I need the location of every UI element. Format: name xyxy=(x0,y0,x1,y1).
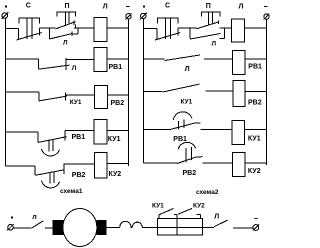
contact L motor right xyxy=(214,220,228,227)
label RV1 contact row4 schema2 xyxy=(173,136,187,143)
svg-text:РВ2: РВ2 xyxy=(72,172,86,179)
label coil RV1 schema2 xyxy=(248,63,262,70)
coil L schema1 xyxy=(94,18,107,42)
terminal right motor circuit xyxy=(253,224,259,230)
svg-text:КУ2: КУ2 xyxy=(109,171,122,178)
label coil L schema2 xyxy=(239,4,244,11)
wire row3 s1 b xyxy=(65,94,94,96)
wire row2 s2 c xyxy=(245,58,267,60)
svg-text:С: С xyxy=(165,3,170,10)
node plus mark (schema2 left supply) xyxy=(143,6,145,8)
motor brush right xyxy=(97,221,106,235)
wire motor d (through resistor) xyxy=(142,227,214,229)
svg-text:Л: Л xyxy=(72,65,77,72)
motor armature M xyxy=(63,209,97,247)
node minus mark (schema1 right supply) xyxy=(126,6,129,8)
coil KU2 schema1 xyxy=(95,152,108,178)
label coil KU1 schema1 xyxy=(108,136,121,143)
pushbutton P (start) schema1 xyxy=(56,12,76,29)
wire row5 s2 b xyxy=(203,162,233,164)
label coil L schema1 xyxy=(103,4,108,11)
wire row2 s1 c xyxy=(107,58,129,60)
label L contact row2 schema2 xyxy=(185,66,190,73)
wire row1 s1 c xyxy=(74,27,94,29)
wire: right bus schema1 xyxy=(128,19,130,166)
svg-text:РВ1: РВ1 xyxy=(248,63,262,70)
contact KU1 (NO) schema2 row3 xyxy=(163,84,200,92)
svg-text:Л: Л xyxy=(185,66,190,73)
wire: right bus schema2 xyxy=(266,19,268,165)
svg-text:РВ2: РВ2 xyxy=(248,100,262,107)
terminal left motor circuit xyxy=(7,224,13,230)
coil KU1 schema1 xyxy=(94,120,107,145)
svg-text:схема2: схема2 xyxy=(196,189,219,196)
inductor (field winding) xyxy=(120,221,143,227)
wire row3 s2 b xyxy=(205,90,233,92)
coil L schema2 xyxy=(232,19,245,42)
wire row1 s1 a xyxy=(6,28,19,30)
contact KU1 (NO) schema1 row3 xyxy=(39,92,67,101)
label coil KU1 schema2 xyxy=(248,135,261,142)
contact L self-hold schema2 xyxy=(190,28,224,39)
time-delay contact RV2 schema2 row5 xyxy=(177,142,202,163)
label KU2 bypass xyxy=(193,202,205,209)
wire row1 s2 a xyxy=(144,28,158,30)
contact L (NO) schema1 row2 xyxy=(39,58,70,70)
label C schema1 xyxy=(26,3,31,10)
wire motor c xyxy=(106,227,120,229)
contact L (NO) schema2 row2 xyxy=(165,55,200,61)
wire row4 s1 c xyxy=(107,130,129,132)
coil RV2 schema1 xyxy=(95,86,108,109)
coil KU1 schema2 xyxy=(232,121,245,145)
label coil RV1 schema1 xyxy=(109,64,123,71)
terminal left schema1 xyxy=(2,12,9,18)
svg-text:КУ1: КУ1 xyxy=(152,202,164,209)
label KU1 contact row3 schema1 xyxy=(70,99,82,106)
wire row4 s2 a xyxy=(144,129,169,131)
wire row1 s2 c xyxy=(220,27,232,29)
label L motor left xyxy=(32,214,36,221)
pushbutton C (stop) schema1 xyxy=(17,18,42,40)
time-delay contact RV1 schema2 row4 xyxy=(169,112,201,130)
svg-text:Л: Л xyxy=(212,40,217,47)
wire row4 s1 b xyxy=(65,130,93,132)
terminal right schema2 xyxy=(264,14,270,20)
wire row2 s1 a xyxy=(6,58,39,60)
bypass contact KU2 xyxy=(178,208,201,218)
wire row3 s1 c xyxy=(108,94,129,96)
wire motor e xyxy=(233,227,253,229)
label L self-hold schema1 xyxy=(63,40,68,47)
label RV2 contact row5 schema1 xyxy=(72,172,86,179)
time-delay contact RV2 schema1 row5 xyxy=(35,164,64,188)
wire row1 s1 d xyxy=(107,27,129,29)
label KU1 contact row3 schema2 xyxy=(181,99,193,106)
wire: left bus schema1 xyxy=(5,18,7,166)
svg-text:РВ1: РВ1 xyxy=(109,64,123,71)
svg-text:Л: Л xyxy=(239,4,244,11)
svg-text:КУ2: КУ2 xyxy=(193,202,205,209)
svg-text:П: П xyxy=(65,3,70,10)
coil RV1 schema2 xyxy=(233,51,246,75)
node minus mark (motor circuit right) xyxy=(255,217,258,219)
starting resistor R1-R2 box xyxy=(158,218,203,235)
label KU1 bypass xyxy=(152,202,164,209)
svg-text:РВ2: РВ2 xyxy=(183,170,197,177)
svg-text:РВ2: РВ2 xyxy=(111,100,125,107)
wire motor b xyxy=(45,227,53,229)
node plus mark (schema1 left supply) xyxy=(5,6,7,8)
svg-text:КУ1: КУ1 xyxy=(181,99,193,106)
svg-text:КУ1: КУ1 xyxy=(70,99,82,106)
contact L motor left xyxy=(32,221,44,228)
svg-text:Л: Л xyxy=(103,4,108,11)
label C schema2 xyxy=(165,3,170,10)
wire row1 s2 b xyxy=(178,27,197,29)
label P schema2 xyxy=(206,3,211,10)
label RV2 contact row5 schema2 xyxy=(183,170,197,177)
coil RV2 schema2 xyxy=(233,81,245,107)
terminal right schema1 xyxy=(126,13,132,19)
svg-text:П: П xyxy=(206,3,211,10)
label coil RV2 schema1 xyxy=(111,100,125,107)
wire row3 s2 c xyxy=(245,91,267,93)
wire motor a xyxy=(14,227,32,229)
caption schema1 xyxy=(60,188,83,195)
label coil KU2 schema1 xyxy=(109,171,122,178)
svg-text:РВ1: РВ1 xyxy=(173,136,187,143)
label RV1 contact row4 schema1 xyxy=(72,134,86,141)
svg-text:КУ2: КУ2 xyxy=(248,168,261,175)
wire row3 s2 a xyxy=(144,91,163,93)
label P schema1 xyxy=(65,3,70,10)
label coil KU2 schema2 xyxy=(248,168,261,175)
wire row2 s1 b xyxy=(66,59,94,61)
svg-text:Л: Л xyxy=(214,214,219,221)
wire row1 s2 d xyxy=(245,27,267,29)
wire row4 s1 a xyxy=(6,131,39,133)
node minus mark (schema2 right supply) xyxy=(264,6,267,8)
wire row4 s2 b xyxy=(201,129,233,131)
coil RV1 schema1 xyxy=(94,48,107,72)
wire row4 s2 c xyxy=(245,129,267,131)
coil KU2 schema2 xyxy=(232,153,245,177)
terminal left schema2 xyxy=(140,13,147,20)
svg-text:КУ1: КУ1 xyxy=(108,136,121,143)
svg-text:Л: Л xyxy=(63,40,68,47)
contact L self-hold schema1 xyxy=(49,29,78,40)
label L contact row2 schema1 xyxy=(72,65,77,72)
svg-text:РВ1: РВ1 xyxy=(72,134,86,141)
wire row5 s2 c xyxy=(245,162,267,164)
time-delay contact RV1 schema1 row4 xyxy=(38,131,67,156)
pushbutton P (start) schema2 xyxy=(197,12,221,29)
label L motor right xyxy=(214,214,219,221)
label coil RV2 schema2 xyxy=(248,100,262,107)
wire row5 s2 a xyxy=(144,162,178,164)
wire row2 s2 a xyxy=(144,58,165,60)
pushbutton C (stop) schema2 xyxy=(155,18,180,40)
label L self-hold schema2 xyxy=(212,40,217,47)
wire row5 s1 b xyxy=(64,163,94,165)
wire row5 s1 a xyxy=(6,165,36,167)
node plus mark (motor circuit left) xyxy=(11,217,13,219)
wire row5 s1 c xyxy=(107,163,129,165)
wire row2 s2 b xyxy=(204,58,233,60)
motor brush left xyxy=(53,221,63,235)
svg-text:КУ1: КУ1 xyxy=(248,135,261,142)
wire: left bus schema2 xyxy=(143,19,145,163)
caption schema2 xyxy=(196,189,219,196)
wire row3 s1 a xyxy=(6,91,40,93)
wire row1 s1 b xyxy=(40,27,56,29)
bypass contact KU1 xyxy=(159,208,177,218)
svg-text:С: С xyxy=(26,3,31,10)
svg-text:схема1: схема1 xyxy=(60,188,83,195)
svg-text:л: л xyxy=(32,214,36,221)
